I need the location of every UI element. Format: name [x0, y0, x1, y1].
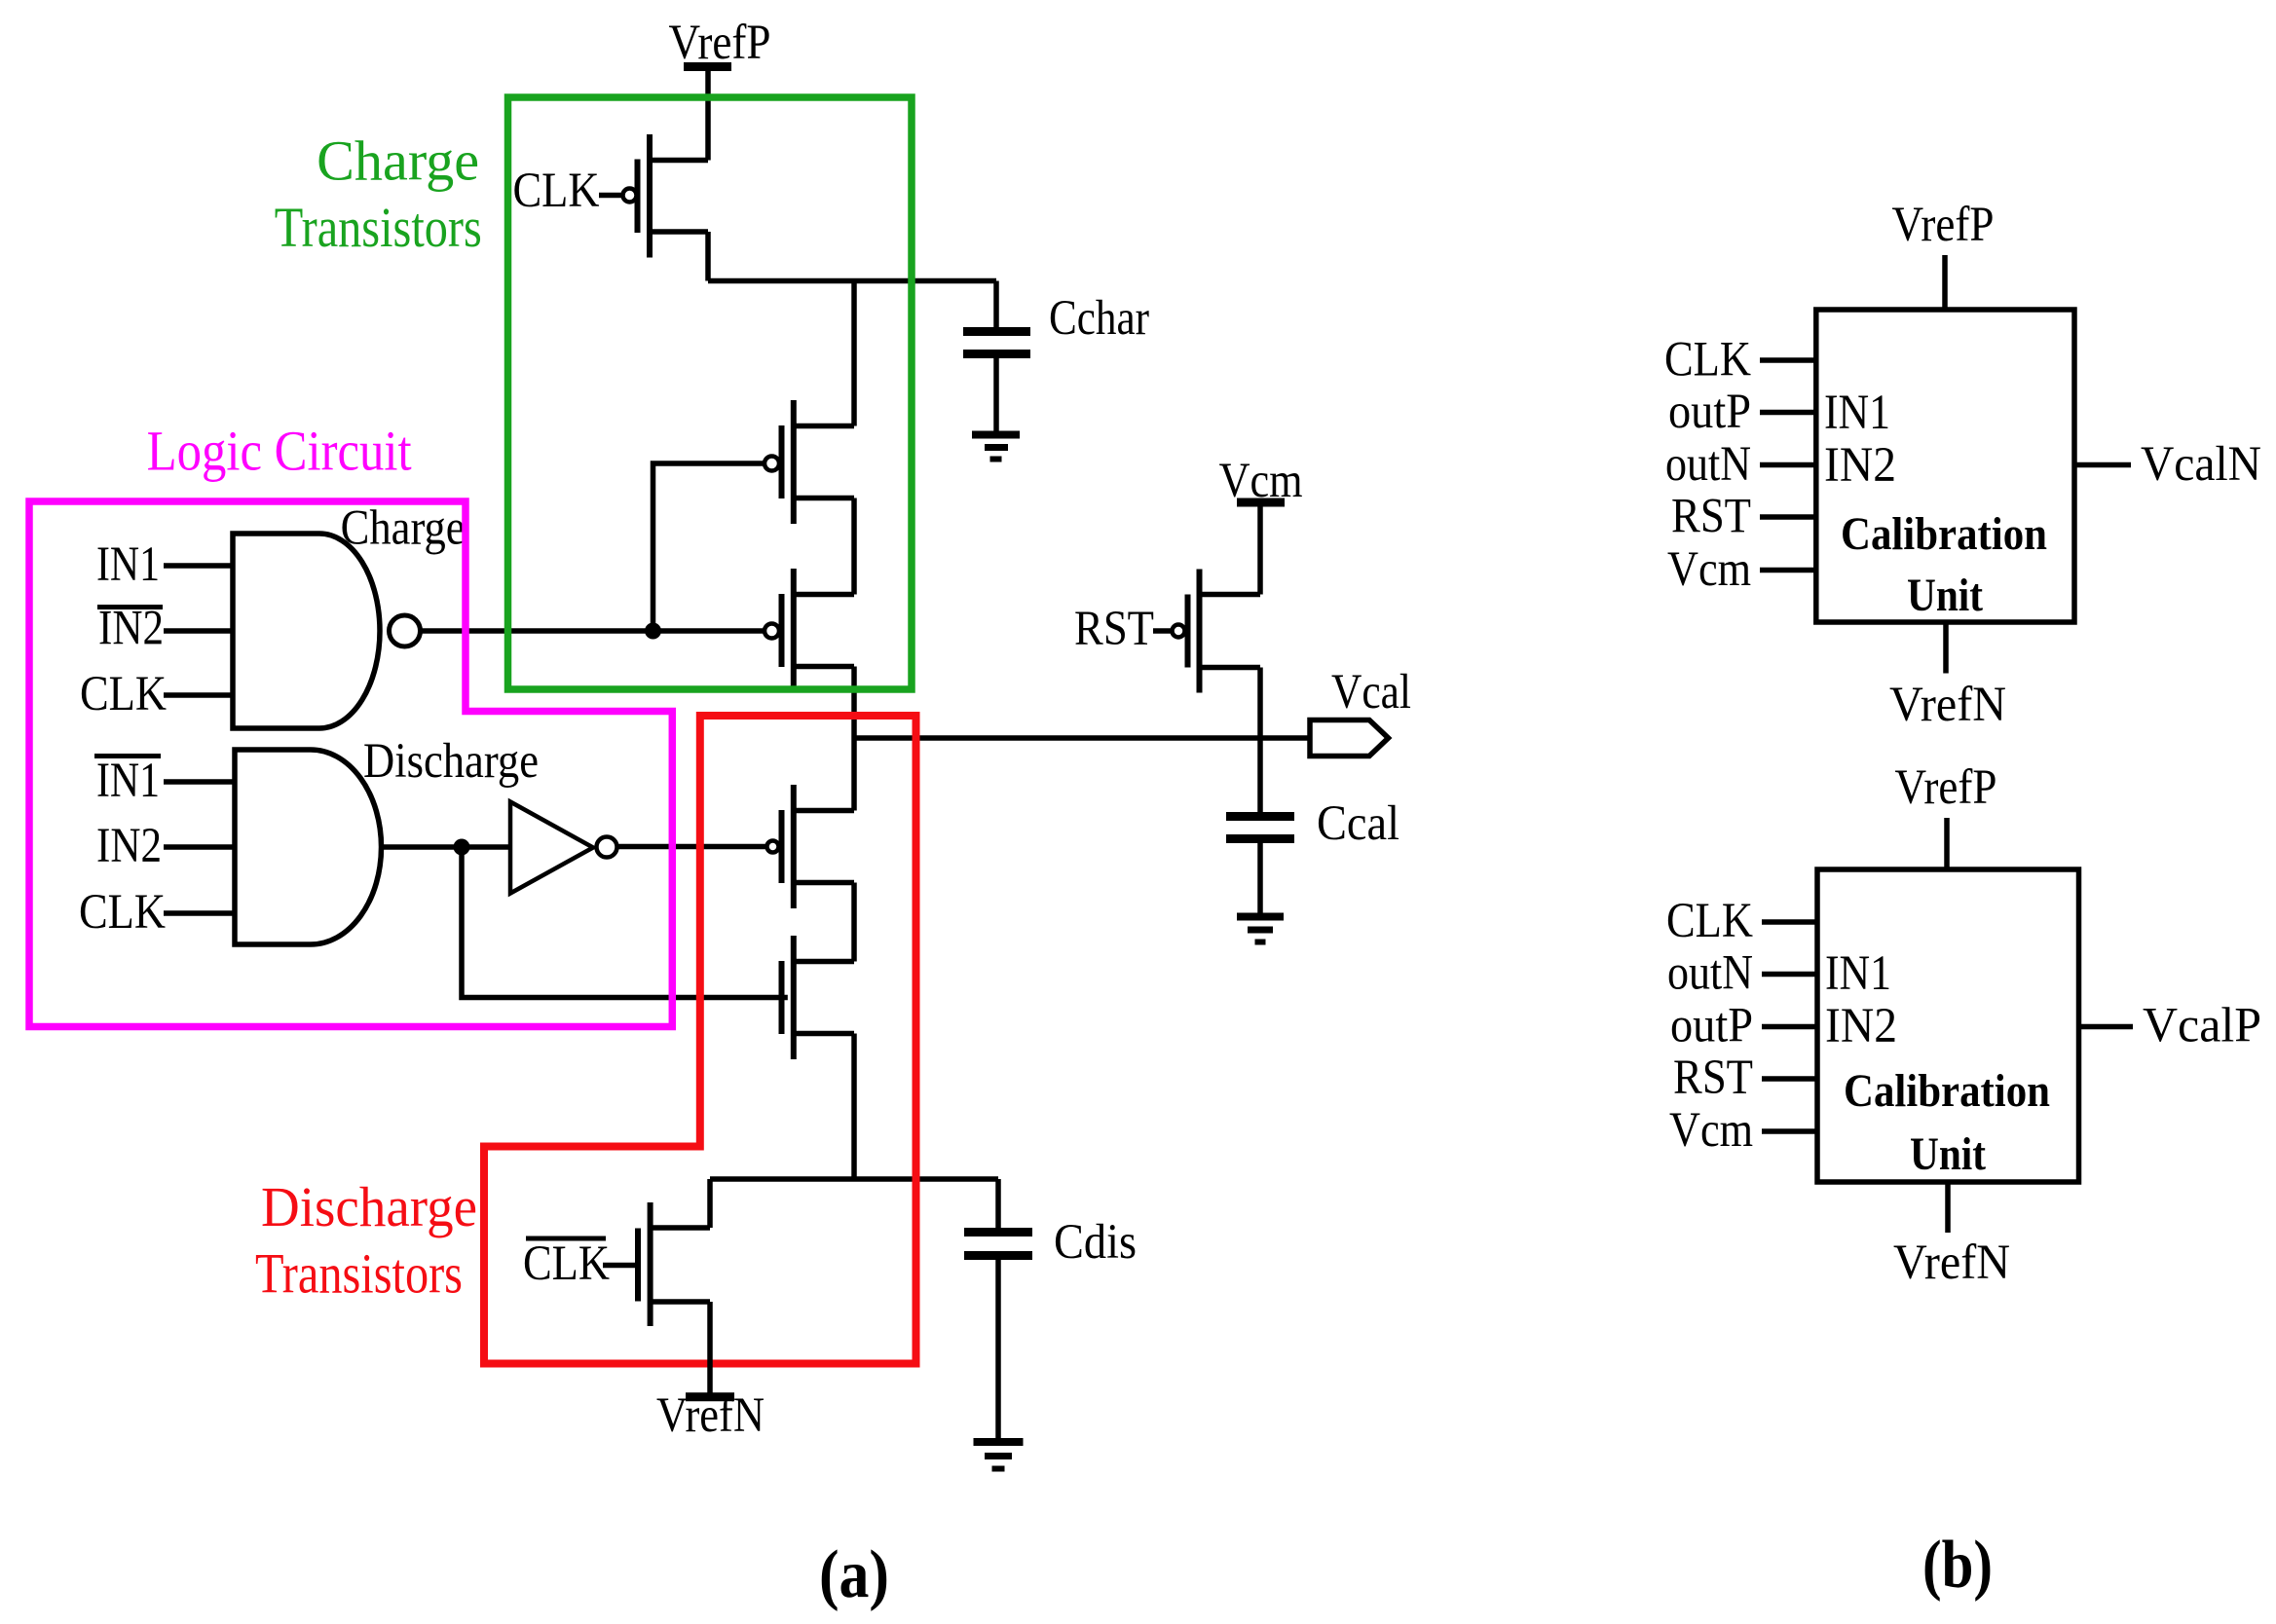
- svg-text:VrefP: VrefP: [669, 16, 771, 70]
- svg-text:Ccal: Ccal: [1317, 796, 1399, 851]
- transistor M5 (discharge lower NMOS): [782, 936, 855, 1059]
- svg-text:Cdis: Cdis: [1054, 1215, 1137, 1270]
- wire VrefP to PMOS M1 drain: [705, 67, 711, 161]
- svg-text:Vcm: Vcm: [1667, 542, 1751, 597]
- calibration unit U3 box: [1817, 869, 2079, 1182]
- svg-text:outN: outN: [1667, 946, 1753, 1001]
- svg-text:IN2: IN2: [98, 602, 164, 656]
- wire RST to U3: [1762, 1076, 1817, 1082]
- wire CLK to M1 gate bubble: [599, 193, 623, 199]
- node Vcal output pointer: [1310, 720, 1389, 757]
- svg-text:CLK: CLK: [1666, 894, 1753, 948]
- svg-text:RST: RST: [1673, 1051, 1753, 1105]
- wire RST to U2: [1760, 514, 1816, 520]
- wire outP to U2: [1760, 410, 1816, 416]
- wire main column M4 source to M5 drain: [851, 883, 857, 962]
- wire IN2 to AND2: [164, 844, 235, 850]
- svg-text:outN: outN: [1665, 437, 1751, 492]
- wire main column M3 source to M4 drain: [851, 667, 857, 811]
- svg-text:RST: RST: [1074, 602, 1154, 656]
- gate AND2 (Discharge): [235, 750, 382, 944]
- bubble inverter output: [597, 837, 617, 858]
- wire CLK to NAND1: [164, 692, 233, 698]
- wire bottom node: [710, 1176, 998, 1182]
- wire main column M5 source down: [851, 1034, 857, 1180]
- wire main column M2 source to M3 drain: [851, 498, 857, 595]
- transistor M2 (PMOS, gate tied to Charge node): [765, 400, 854, 524]
- label IN1-bar (AND2): [94, 754, 161, 808]
- ground (below Ccal): [1237, 917, 1284, 942]
- inverter U1: [510, 802, 593, 894]
- ground (below Cchar): [972, 435, 1020, 460]
- junction dot (Charge node): [645, 623, 661, 640]
- node VrefP (top supply of part a): [669, 16, 771, 70]
- wire M7 source down to Ccal: [1257, 668, 1263, 814]
- wire Vcm down to M7: [1257, 502, 1263, 595]
- red box Discharge Transistors: [484, 716, 916, 1364]
- label Calibration Unit (U2): [1841, 508, 2047, 621]
- svg-text:Vcm: Vcm: [1669, 1103, 1753, 1158]
- wire IN1 to AND2: [164, 779, 235, 785]
- wire VrefP to U2: [1942, 255, 1948, 310]
- svg-text:Vcal: Vcal: [1331, 665, 1411, 720]
- wire CLK-bar to M6 gate: [603, 1263, 635, 1269]
- wire NAND1 output to M3 gate: [422, 628, 765, 634]
- wire M2 gate branch: [653, 463, 765, 631]
- wire M1 source down: [705, 232, 711, 281]
- wire inverter output to M4 gate: [617, 844, 766, 850]
- wire outP to U3: [1762, 1024, 1817, 1030]
- label Charge Transistors: [275, 129, 482, 260]
- label Calibration Unit (U3): [1844, 1065, 2050, 1180]
- svg-text:outP: outP: [1670, 999, 1753, 1053]
- svg-text:IN2: IN2: [96, 819, 162, 873]
- svg-text:IN2: IN2: [1824, 438, 1896, 493]
- svg-text:Cchar: Cchar: [1049, 291, 1149, 346]
- svg-text:VrefN: VrefN: [1893, 1236, 2010, 1290]
- svg-text:CLK: CLK: [1664, 333, 1751, 388]
- green box Charge Transistors: [508, 97, 913, 689]
- svg-text:VrefN: VrefN: [656, 1388, 765, 1443]
- svg-text:Transistors: Transistors: [275, 196, 482, 259]
- node Vcm (supply): [1219, 454, 1303, 508]
- label CLK-bar (M6 gate): [523, 1236, 610, 1291]
- svg-text:VcalN: VcalN: [2141, 437, 2261, 492]
- wire U3 to VrefN: [1945, 1182, 1951, 1233]
- wire Discharge node to M5 gate: [462, 847, 788, 998]
- capacitor Ccal: [1226, 817, 1294, 914]
- magenta box Logic Circuit: [29, 501, 672, 1027]
- svg-text:Calibration: Calibration: [1841, 508, 2047, 560]
- wire VcalN output: [2074, 462, 2131, 468]
- transistor M4 (discharge upper, small gate bubble): [767, 785, 855, 908]
- svg-text:CLK: CLK: [80, 667, 167, 721]
- node VrefN (part a): [656, 1388, 765, 1443]
- wire outN to U3: [1762, 972, 1817, 978]
- svg-text:VrefP: VrefP: [1895, 760, 1997, 815]
- svg-text:CLK: CLK: [523, 1236, 610, 1291]
- wire IN1 to NAND1: [164, 563, 233, 569]
- svg-text:VrefP: VrefP: [1892, 198, 1995, 252]
- capacitor Cchar: [963, 281, 1030, 432]
- wire CLK to U3: [1762, 919, 1817, 925]
- svg-text:Charge: Charge: [341, 501, 466, 556]
- calibration unit U2 box: [1816, 310, 2074, 622]
- svg-text:Logic Circuit: Logic Circuit: [147, 419, 412, 482]
- wire CLK to AND2: [164, 910, 235, 916]
- junction dot (Discharge node): [454, 839, 470, 856]
- label Discharge Transistors: [255, 1175, 477, 1305]
- svg-text:VrefN: VrefN: [1889, 678, 2006, 732]
- wire RST to M7 gate bubble: [1153, 628, 1173, 634]
- wire Vcal horizontal: [854, 735, 1310, 741]
- wire main column upper: [851, 281, 857, 426]
- transistor M1 (PMOS, CLK, charge): [623, 134, 709, 258]
- svg-text:Unit: Unit: [1907, 570, 1983, 621]
- wire node M1-source to Cchar: [708, 278, 996, 284]
- wire node down to M6 drain: [707, 1179, 713, 1228]
- wire CLK to U2: [1760, 357, 1816, 363]
- wire VcalP output: [2079, 1024, 2134, 1030]
- wire IN2 to NAND1: [164, 628, 233, 634]
- svg-text:Transistors: Transistors: [255, 1242, 463, 1306]
- transistor M6 (NMOS, CLK-bar): [638, 1202, 710, 1326]
- svg-text:VcalP: VcalP: [2143, 999, 2261, 1053]
- wire Vcm to U2: [1760, 568, 1816, 573]
- wire Vcm to U3: [1762, 1128, 1817, 1134]
- label IN2-bar (NAND1): [97, 602, 164, 656]
- svg-text:IN1: IN1: [96, 537, 160, 592]
- bubble NAND1 output: [390, 615, 421, 646]
- svg-text:CLK: CLK: [513, 164, 600, 218]
- wire M6 source to VrefN: [707, 1302, 713, 1394]
- ground (below Cdis): [974, 1442, 1024, 1469]
- svg-text:IN1: IN1: [1825, 946, 1891, 1001]
- gate NAND1 (Charge): [233, 534, 380, 728]
- svg-text:Discharge: Discharge: [261, 1175, 477, 1238]
- wire VrefP to U3: [1944, 818, 1950, 869]
- svg-text:Discharge: Discharge: [363, 734, 539, 789]
- svg-text:outP: outP: [1668, 385, 1751, 439]
- svg-text:Unit: Unit: [1910, 1128, 1986, 1180]
- wire U2 to VrefN: [1943, 622, 1949, 674]
- svg-text:IN1: IN1: [1824, 386, 1890, 440]
- transistor M7 (RST PMOS): [1173, 570, 1261, 693]
- svg-text:IN2: IN2: [1825, 999, 1897, 1053]
- svg-text:RST: RST: [1671, 490, 1751, 544]
- svg-text:CLK: CLK: [79, 885, 166, 940]
- svg-text:Calibration: Calibration: [1844, 1065, 2050, 1117]
- capacitor Cdis: [964, 1179, 1032, 1439]
- wire AND2 output to inverter: [381, 844, 510, 850]
- svg-text:(a): (a): [819, 1537, 889, 1612]
- wire outN to U2: [1760, 462, 1816, 468]
- svg-text:Charge: Charge: [317, 129, 479, 193]
- svg-text:(b): (b): [1922, 1528, 1993, 1603]
- svg-text:IN1: IN1: [96, 754, 160, 808]
- transistor M3 (PMOS, gate from NAND Charge): [765, 569, 854, 692]
